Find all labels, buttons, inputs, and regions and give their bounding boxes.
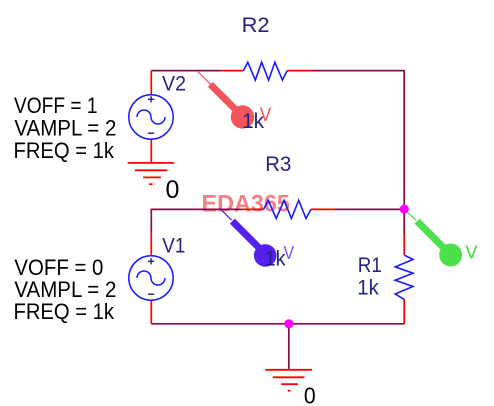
svg-text:V: V bbox=[260, 104, 272, 126]
svg-text:V: V bbox=[465, 243, 477, 263]
svg-text:VOFF = 1: VOFF = 1 bbox=[14, 93, 98, 118]
svg-text:V: V bbox=[284, 243, 295, 263]
svg-text:FREQ = 1k: FREQ = 1k bbox=[14, 299, 115, 324]
svg-text:0: 0 bbox=[304, 383, 316, 406]
svg-text:V2: V2 bbox=[162, 72, 186, 95]
svg-text:R1: R1 bbox=[358, 254, 382, 277]
svg-text:0: 0 bbox=[166, 176, 180, 204]
svg-text:R2: R2 bbox=[242, 14, 270, 37]
svg-text:R3: R3 bbox=[265, 153, 291, 176]
svg-text:V1: V1 bbox=[162, 234, 185, 257]
svg-text:1k: 1k bbox=[357, 276, 379, 299]
svg-text:EDA365: EDA365 bbox=[202, 191, 290, 218]
svg-text:VAMPL = 2: VAMPL = 2 bbox=[14, 116, 116, 141]
svg-text:FREQ = 1k: FREQ = 1k bbox=[14, 138, 115, 163]
